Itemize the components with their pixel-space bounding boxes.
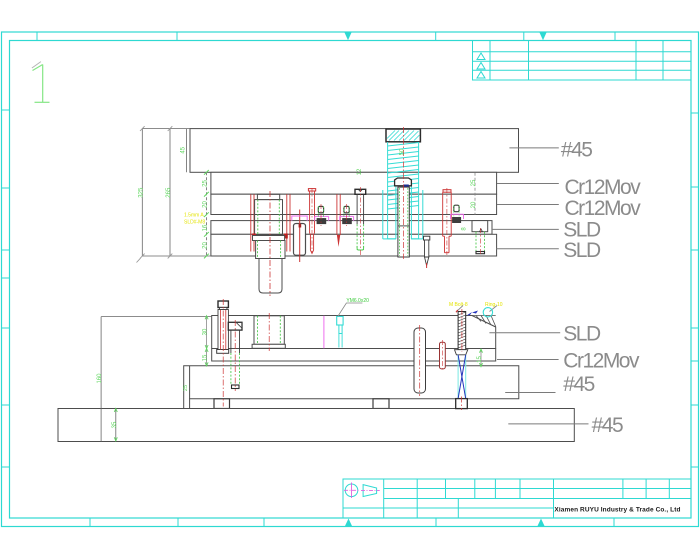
red pin 1 centerline: [311, 188, 313, 252]
svg-text:20: 20: [202, 242, 208, 249]
punch body green guides: [258, 241, 281, 259]
svg-text:12: 12: [357, 168, 363, 175]
border ticks left: [2, 110, 10, 467]
foot 2: [373, 399, 389, 409]
projection symbol circle: [345, 484, 358, 497]
long socket bolt tip: [357, 246, 364, 250]
small pin L8: [440, 342, 446, 369]
projection symbol cone: [363, 485, 377, 497]
svg-text:25: 25: [183, 385, 189, 391]
part label underline + leader: [338, 303, 363, 316]
svg-text:SLD: SLD: [563, 239, 601, 262]
small pin right of spring head: [424, 236, 430, 240]
punch holder block: [255, 200, 283, 235]
die insert outline: [254, 316, 284, 345]
red bolt cap: [443, 190, 451, 193]
plate P5 SLD: [211, 234, 497, 256]
punch body: [256, 241, 285, 259]
stripper bolt B centerline: [346, 204, 348, 226]
red pin 2 tip: [337, 235, 340, 247]
thin plate line: [212, 360, 496, 362]
svg-text:325: 325: [138, 187, 144, 198]
socket screw D tip: [476, 252, 485, 254]
stripper bolt A green sides: [318, 206, 323, 218]
dim oblique ticks: [137, 126, 173, 262]
punch nose: [259, 259, 282, 293]
die chamfer hatch: [472, 316, 496, 327]
svg-text:SLD: SLD: [563, 323, 601, 346]
retainer blue screw: [403, 185, 409, 193]
lower dim extension top: [101, 316, 212, 318]
border ticks right: [691, 113, 699, 467]
guide pillar foot: [456, 399, 468, 409]
svg-text:50: 50: [400, 148, 406, 155]
socket screw D green body: [476, 232, 485, 252]
rod centerline: [403, 127, 405, 259]
small bolt C magenta pocket: [451, 214, 464, 219]
green dim H right: [480, 349, 482, 366]
punch red caps: [252, 234, 256, 239]
leader Cr12Mov 1: [497, 183, 559, 185]
leader #45 upper: [509, 147, 558, 149]
spring counterbore outline: [383, 190, 423, 239]
cyan punch in die top: [337, 316, 343, 325]
base plate #45: [58, 409, 574, 442]
gray serif mark beside 1: [32, 62, 41, 68]
cyan punch mid: [339, 325, 342, 334]
bolt L1 neck: [220, 308, 227, 310]
centering mark bottom 1: [345, 519, 352, 527]
border ticks top: [37, 32, 615, 41]
revision triangle row2: [477, 53, 485, 60]
svg-text:#45: #45: [561, 139, 592, 162]
plate P3 Cr12Mov: [211, 194, 497, 214]
lower die shoe #45: [184, 366, 519, 409]
red bolt centerline: [446, 188, 448, 255]
magenta strip line: [323, 316, 325, 349]
punch holder neck: [257, 194, 279, 199]
shoe left foot inner line: [189, 366, 191, 399]
svg-text:25: 25: [471, 179, 477, 186]
bolt L1 washer: [217, 350, 229, 354]
revision triangle row4: [477, 72, 485, 79]
bolt L1 centerline: [222, 299, 224, 407]
spring retainer: [395, 178, 412, 186]
projection symbol crosshair: [344, 483, 359, 499]
stripper bolt B green sides: [344, 206, 349, 218]
stripper bolt B pocket magenta: [340, 216, 354, 220]
punch centerline: [269, 191, 271, 296]
guide pillar upper hatched column: [458, 312, 466, 350]
stripper bolt A head: [318, 206, 323, 213]
stripper bolt B head: [344, 206, 349, 213]
leader SLD 1: [492, 228, 559, 230]
cyan ring circle: [483, 308, 492, 317]
spring cap hatch: [387, 131, 420, 141]
svg-text:#45: #45: [592, 414, 623, 437]
socket screw L2 shank: [231, 330, 240, 353]
stripper bolt A pocket magenta: [315, 216, 329, 220]
leader #45 shoe: [505, 392, 555, 394]
leader Cr12Mov 2: [497, 204, 559, 206]
svg-text:45: 45: [180, 146, 186, 153]
foot 1: [214, 399, 230, 409]
lower pad Cr12Mov: [212, 349, 496, 362]
centering mark top 2: [540, 33, 547, 41]
red bolt body: [443, 192, 452, 253]
socket screw L2 notch: [236, 322, 242, 328]
dimension extension top: [142, 128, 190, 130]
border ticks bottom: [90, 518, 614, 527]
bolt L1 head: [218, 301, 228, 308]
svg-text:265: 265: [166, 187, 172, 198]
leader SLD 2: [497, 248, 559, 250]
small pin tip: [425, 257, 429, 266]
guide pillar X section sides cyan: [458, 355, 466, 399]
yellow note leaders: [457, 306, 463, 312]
socket screw L2 head: [228, 322, 242, 330]
centering mark bottom 2: [538, 519, 545, 527]
revision table top right: [473, 41, 692, 81]
dim F arrows: [114, 409, 117, 441]
punch green guides: [258, 200, 280, 235]
svg-text:25: 25: [202, 180, 208, 187]
spring outer walls: [388, 142, 419, 239]
svg-text:20: 20: [471, 201, 477, 208]
sheet number 1 (green): [33, 65, 50, 103]
small pin body: [425, 240, 429, 257]
stripper bolt A nut: [317, 219, 326, 224]
guide block right: [472, 221, 488, 232]
rod green guides: [400, 188, 408, 256]
spring cap: [386, 129, 420, 142]
svg-text:Xiamen RUYU Industry & Trade C: Xiamen RUYU Industry & Trade Co., Ltd: [554, 507, 680, 514]
die insert flange: [252, 344, 285, 348]
dimension line B: [169, 129, 171, 256]
leader SLD lower: [489, 332, 560, 334]
die plate SLD lower: [212, 316, 496, 349]
small bolt C green sides: [454, 205, 459, 217]
spring rod: [398, 187, 409, 257]
plate P1 top plate #45: [190, 129, 519, 173]
lifter red top blob: [299, 224, 302, 228]
socket screw L2 thread green: [231, 353, 240, 385]
dimension line C: [186, 129, 188, 173]
slot pin L7: [414, 328, 426, 393]
lifter red pin line: [299, 210, 301, 263]
pillar centerline upper: [461, 309, 463, 352]
cyan punch lines: [339, 334, 342, 348]
leader Cr12Mov lower: [497, 359, 559, 361]
long socket bolt centerline: [359, 187, 361, 255]
svg-text:30: 30: [203, 328, 209, 335]
socket screw L2 tip: [232, 385, 240, 389]
dimension extension bottom: [142, 255, 211, 257]
rod section line: [398, 225, 409, 227]
guide pillar collar: [455, 350, 468, 355]
slot pin centerline: [419, 325, 421, 396]
svg-text:Cr12Mov: Cr12Mov: [565, 197, 642, 220]
long socket bolt body: [357, 194, 364, 224]
leader #45 base: [508, 423, 588, 425]
guide block triangle mark: [480, 229, 483, 232]
svg-text:20: 20: [202, 201, 208, 208]
stripper bolt A centerline: [320, 204, 322, 226]
die insert green guides: [258, 316, 281, 345]
spring coils upper: [388, 143, 419, 210]
dimension line A: [141, 129, 143, 256]
svg-text:1.5mm A: 1.5mm A: [184, 213, 204, 219]
green dim line G lower left: [206, 316, 208, 366]
svg-text:Cr12Mov: Cr12Mov: [565, 176, 642, 199]
svg-text:M Bolt-8: M Bolt-8: [449, 302, 468, 308]
centering mark top 1: [345, 33, 352, 41]
small bolt C head: [454, 205, 459, 212]
dimension line D dashed: [205, 172, 207, 256]
guide pillar blue arrow: [467, 312, 473, 316]
svg-text:#45: #45: [563, 373, 594, 396]
long socket bolt green thread: [357, 224, 364, 250]
lower dim line E: [100, 317, 102, 442]
guide pillar X cross: [458, 355, 466, 399]
punch flange: [253, 236, 285, 241]
lifter magenta pocket: [292, 216, 307, 221]
svg-text:160: 160: [97, 373, 103, 384]
punch unit screws red left: [251, 194, 290, 251]
plate P4 SLD: [211, 221, 492, 235]
green dim ticks D: [204, 170, 209, 258]
long socket bolt head: [355, 189, 366, 194]
small pin red tip: [426, 263, 428, 268]
plate P2 Cr12Mov: [211, 172, 497, 194]
lifter unit rounded rect: [294, 224, 306, 256]
revision triangle row3: [477, 63, 485, 70]
small pin L8 centerline: [441, 340, 443, 371]
small bolt C nut: [453, 218, 461, 223]
svg-text:SLD#-M8: SLD#-M8: [184, 220, 205, 226]
red pin 1 body: [310, 191, 315, 253]
socket screw L2 centerline: [234, 320, 236, 391]
cone centerline: [361, 490, 380, 492]
red pin 2 body: [337, 194, 340, 235]
pillar foot centerline: [461, 397, 463, 411]
svg-text:15: 15: [477, 356, 483, 363]
die insert centerline: [268, 313, 270, 351]
socket screw D centerline: [479, 228, 481, 256]
bolt L1 red sides: [221, 310, 226, 350]
svg-text:15: 15: [203, 354, 209, 361]
svg-text:35: 35: [112, 421, 118, 428]
bolt L1 body: [218, 310, 228, 350]
stripper bolt B nut: [343, 219, 352, 224]
red pin 1 cap: [308, 189, 315, 191]
right dim line dashed: [474, 173, 476, 215]
lower dim line F: [115, 410, 117, 442]
svg-text:Cr12Mov: Cr12Mov: [563, 349, 640, 372]
